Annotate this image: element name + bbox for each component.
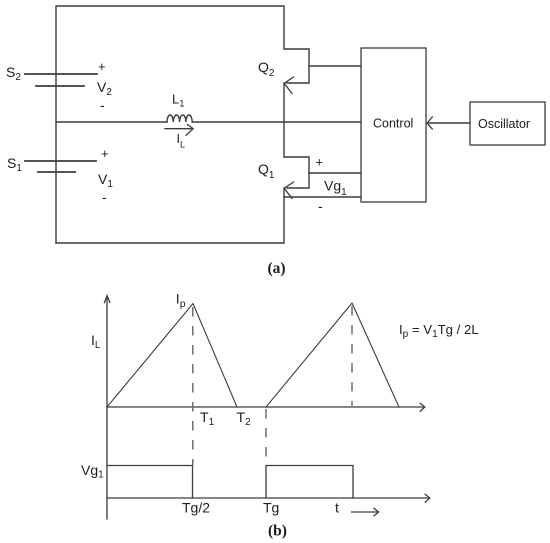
svg-text:Ip: Ip <box>176 290 186 310</box>
svg-text:T1: T1 <box>200 409 215 428</box>
svg-text:Ip = V1Tg / 2L: Ip = V1Tg / 2L <box>399 322 479 340</box>
svg-text:-: - <box>100 97 105 113</box>
svg-text:+: + <box>98 59 106 74</box>
svg-text:Tg/2: Tg/2 <box>182 500 210 516</box>
svg-text:Vg1: Vg1 <box>324 178 347 199</box>
svg-text:S1: S1 <box>7 155 22 174</box>
svg-text:t: t <box>335 500 339 516</box>
svg-text:V2: V2 <box>97 79 112 98</box>
svg-text:Q2: Q2 <box>258 59 275 79</box>
svg-text:S2: S2 <box>6 64 21 83</box>
svg-text:IL: IL <box>177 132 186 150</box>
svg-text:+: + <box>101 146 109 161</box>
svg-text:Control: Control <box>373 117 413 131</box>
svg-text:-: - <box>318 198 323 214</box>
svg-text:Tg: Tg <box>263 500 279 516</box>
svg-text:Vg1: Vg1 <box>81 462 104 481</box>
svg-text:V1: V1 <box>98 171 113 190</box>
svg-text:(b): (b) <box>268 523 287 540</box>
svg-text:(a): (a) <box>268 260 286 277</box>
svg-text:T2: T2 <box>237 409 252 428</box>
svg-text:L1: L1 <box>172 91 185 109</box>
svg-text:+: + <box>316 155 324 170</box>
svg-text:Q1: Q1 <box>258 161 275 181</box>
svg-text:Oscillator: Oscillator <box>478 117 530 131</box>
svg-text:IL: IL <box>91 332 101 351</box>
svg-text:-: - <box>102 189 107 205</box>
